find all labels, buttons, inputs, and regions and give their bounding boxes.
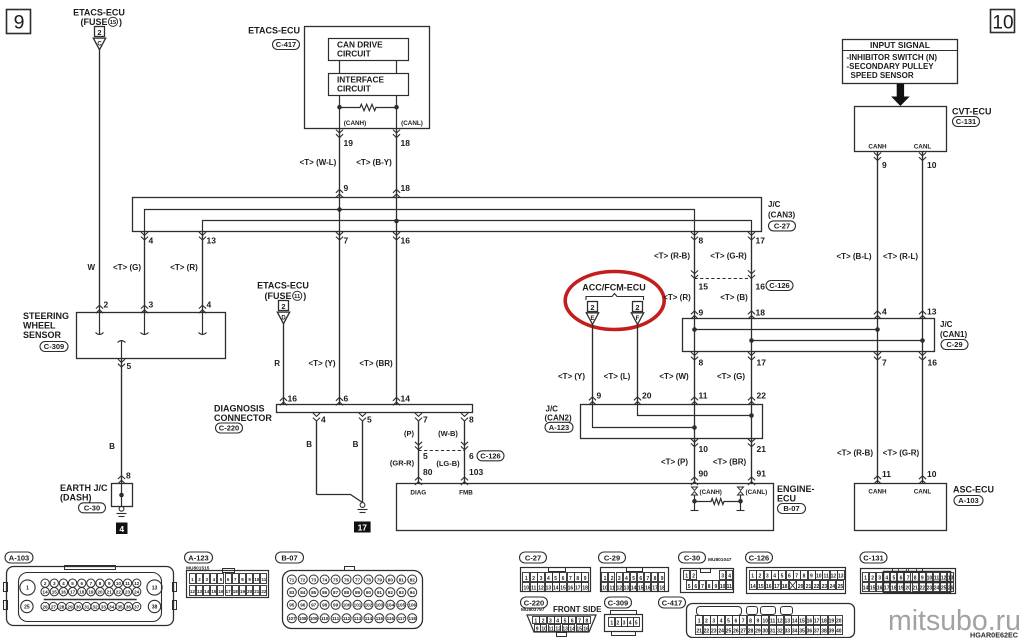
svg-text:77: 77 <box>355 577 361 582</box>
svg-text:29: 29 <box>68 604 74 609</box>
svg-text:10: 10 <box>602 585 608 591</box>
svg-text:7: 7 <box>882 358 887 368</box>
svg-text:18: 18 <box>756 308 766 318</box>
svg-text:22: 22 <box>757 391 767 401</box>
svg-text:7: 7 <box>795 574 798 580</box>
svg-text:16: 16 <box>61 590 67 595</box>
svg-text:18: 18 <box>401 183 411 193</box>
svg-text:5: 5 <box>423 451 428 461</box>
svg-text:30: 30 <box>762 629 768 635</box>
svg-text:5: 5 <box>635 620 638 626</box>
svg-text:<T> (R): <T> (R) <box>170 263 198 272</box>
svg-text:(CANH): (CANH) <box>700 489 722 496</box>
svg-text:10: 10 <box>927 576 933 582</box>
svg-text:C: C <box>97 41 102 47</box>
svg-text:1: 1 <box>864 576 867 582</box>
svg-text:18: 18 <box>659 585 665 591</box>
svg-text:14: 14 <box>569 626 575 632</box>
svg-text:115: 115 <box>376 616 384 621</box>
svg-text:12: 12 <box>134 581 140 586</box>
svg-text:11: 11 <box>934 576 940 582</box>
svg-text:11: 11 <box>548 626 554 632</box>
svg-text:B-07: B-07 <box>281 554 297 563</box>
svg-text:100: 100 <box>343 603 351 608</box>
svg-text:STEERING: STEERING <box>23 311 69 321</box>
svg-text:C-29: C-29 <box>604 554 620 563</box>
svg-text:<T> (P): <T> (P) <box>661 458 688 467</box>
svg-text:1: 1 <box>26 586 29 592</box>
svg-text:23: 23 <box>927 586 933 592</box>
svg-text:24: 24 <box>934 586 940 592</box>
svg-text:8: 8 <box>914 576 917 582</box>
svg-text:5: 5 <box>727 619 730 625</box>
svg-text:F: F <box>636 316 640 322</box>
svg-text:R: R <box>274 359 280 368</box>
svg-text:23: 23 <box>822 584 828 590</box>
svg-text:C-126: C-126 <box>480 451 500 460</box>
svg-text:C-30: C-30 <box>84 503 100 512</box>
svg-text:17: 17 <box>814 619 820 625</box>
svg-text:<T> (Y): <T> (Y) <box>558 372 585 381</box>
svg-text:5: 5 <box>688 584 691 590</box>
svg-text:18: 18 <box>401 138 411 148</box>
svg-text:74: 74 <box>322 577 328 582</box>
svg-text:14: 14 <box>401 394 411 404</box>
svg-text:<T> (BR): <T> (BR) <box>713 458 747 467</box>
svg-text:4: 4 <box>207 300 212 310</box>
svg-text:14: 14 <box>631 585 637 591</box>
svg-text:8: 8 <box>576 576 579 582</box>
svg-text:13: 13 <box>927 307 937 317</box>
svg-text:<T> (R): <T> (R) <box>663 293 691 302</box>
svg-text:11: 11 <box>262 577 267 582</box>
svg-text:FRONT SIDE: FRONT SIDE <box>553 605 602 614</box>
svg-text:15: 15 <box>870 586 876 592</box>
svg-text:C-220: C-220 <box>219 424 239 433</box>
svg-text:1: 1 <box>525 576 528 582</box>
svg-text:9: 9 <box>661 576 664 582</box>
svg-text:C-417: C-417 <box>276 40 296 49</box>
svg-text:6: 6 <box>562 576 565 582</box>
svg-text:20: 20 <box>836 619 842 625</box>
svg-text:13: 13 <box>546 585 552 591</box>
svg-text:19: 19 <box>344 138 354 148</box>
svg-text:9: 9 <box>14 12 25 34</box>
svg-text:5: 5 <box>893 576 896 582</box>
svg-text:17: 17 <box>652 585 658 591</box>
svg-text:11: 11 <box>823 574 829 580</box>
svg-text:103: 103 <box>376 603 384 608</box>
svg-text:ENGINE-: ENGINE- <box>777 484 815 494</box>
svg-text:2: 2 <box>635 303 639 312</box>
svg-text:93: 93 <box>399 590 405 595</box>
svg-text:(GR-R): (GR-R) <box>390 459 415 468</box>
svg-text:C-131: C-131 <box>956 117 976 126</box>
svg-text:21: 21 <box>757 444 767 454</box>
svg-text:101: 101 <box>354 603 362 608</box>
svg-text:15: 15 <box>699 282 709 292</box>
svg-text:10: 10 <box>254 577 260 582</box>
svg-text:15: 15 <box>52 590 58 595</box>
svg-text:12: 12 <box>555 626 561 632</box>
svg-text:9: 9 <box>699 308 704 318</box>
svg-text:83: 83 <box>289 590 295 595</box>
svg-text:15: 15 <box>560 585 566 591</box>
svg-text:13: 13 <box>197 589 203 594</box>
svg-text:16: 16 <box>766 584 772 590</box>
svg-text:20: 20 <box>905 586 911 592</box>
svg-text:6: 6 <box>734 619 737 625</box>
svg-text:21: 21 <box>254 589 260 594</box>
svg-text:30: 30 <box>76 604 82 609</box>
svg-text:MU801047: MU801047 <box>708 557 732 563</box>
svg-text:2: 2 <box>617 620 620 626</box>
svg-text:21: 21 <box>806 584 812 590</box>
svg-text:78: 78 <box>366 577 372 582</box>
svg-text:6: 6 <box>571 619 574 625</box>
svg-text:12: 12 <box>617 585 623 591</box>
svg-text:C-27: C-27 <box>774 222 790 231</box>
svg-text:105: 105 <box>397 603 405 608</box>
svg-text:1: 1 <box>610 620 613 626</box>
svg-text:27: 27 <box>51 604 57 609</box>
svg-text:25: 25 <box>941 586 947 592</box>
svg-text:(CANL): (CANL) <box>401 120 423 127</box>
svg-text:11: 11 <box>610 585 616 591</box>
svg-text:11: 11 <box>882 469 891 479</box>
svg-text:25: 25 <box>726 629 732 635</box>
svg-text:9: 9 <box>536 626 539 632</box>
svg-text:CANH: CANH <box>868 489 887 496</box>
svg-text:34: 34 <box>109 604 115 609</box>
svg-text:91: 91 <box>757 469 767 479</box>
svg-text:19: 19 <box>240 589 246 594</box>
svg-text:18: 18 <box>891 586 897 592</box>
svg-text:17: 17 <box>70 590 76 595</box>
svg-text:17: 17 <box>884 586 890 592</box>
svg-text:10: 10 <box>992 12 1013 33</box>
svg-text:<T> (BR): <T> (BR) <box>359 359 393 368</box>
svg-text:10: 10 <box>927 160 937 170</box>
svg-text:116: 116 <box>387 616 395 621</box>
svg-text:<T> (B): <T> (B) <box>720 293 748 302</box>
svg-text:13: 13 <box>838 574 844 580</box>
svg-text:7: 7 <box>90 581 93 586</box>
svg-text:8: 8 <box>699 358 704 368</box>
svg-text:<T> (R-B): <T> (R-B) <box>654 252 690 261</box>
svg-text:<T> (G): <T> (G) <box>113 263 141 272</box>
svg-text:15: 15 <box>799 619 805 625</box>
svg-text:13: 13 <box>624 585 630 591</box>
svg-text:75: 75 <box>333 577 339 582</box>
svg-text:ECU: ECU <box>777 494 796 504</box>
svg-text:37: 37 <box>814 629 820 635</box>
svg-text:4: 4 <box>547 576 550 582</box>
svg-text:9: 9 <box>584 576 587 582</box>
svg-text:11: 11 <box>699 391 708 401</box>
svg-text:(CAN1): (CAN1) <box>940 330 967 339</box>
svg-text:2: 2 <box>44 581 47 586</box>
svg-text:114: 114 <box>365 616 373 621</box>
svg-text:16: 16 <box>928 358 938 368</box>
svg-text:B: B <box>306 440 312 449</box>
svg-text:(CANL): (CANL) <box>746 489 768 496</box>
svg-text:22: 22 <box>920 586 926 592</box>
svg-text:15: 15 <box>110 20 117 26</box>
svg-text:W: W <box>87 263 95 272</box>
svg-text:1: 1 <box>751 574 754 580</box>
svg-text:7: 7 <box>569 576 572 582</box>
svg-text:B: B <box>353 440 359 449</box>
svg-text:91: 91 <box>377 590 383 595</box>
svg-text:111: 111 <box>332 616 340 621</box>
svg-text:15: 15 <box>758 584 764 590</box>
svg-text:22: 22 <box>261 589 267 594</box>
svg-text:C-29: C-29 <box>946 340 962 349</box>
svg-text:25: 25 <box>24 605 30 611</box>
svg-text:13: 13 <box>207 236 217 246</box>
svg-text:<T> (W): <T> (W) <box>659 372 689 381</box>
svg-text:9: 9 <box>344 183 349 193</box>
svg-text:4: 4 <box>321 415 326 425</box>
svg-text:18: 18 <box>79 590 85 595</box>
svg-text:3: 3 <box>149 300 154 310</box>
svg-text:12: 12 <box>190 589 196 594</box>
svg-text:CIRCUIT: CIRCUIT <box>337 84 371 94</box>
svg-text:7: 7 <box>423 415 428 425</box>
svg-text:<T> (B-Y): <T> (B-Y) <box>356 158 392 167</box>
svg-text:SPEED SENSOR: SPEED SENSOR <box>851 71 914 80</box>
svg-text:4: 4 <box>629 620 632 626</box>
svg-text:6: 6 <box>469 451 474 461</box>
svg-text:88: 88 <box>344 590 350 595</box>
svg-text:18: 18 <box>233 589 239 594</box>
svg-text:FMB: FMB <box>459 490 473 497</box>
svg-text:104: 104 <box>387 603 395 608</box>
svg-text:C-27: C-27 <box>525 554 541 563</box>
svg-text:2: 2 <box>104 300 109 310</box>
svg-text:10: 10 <box>699 444 709 454</box>
svg-text:21: 21 <box>696 629 702 635</box>
svg-text:102: 102 <box>365 603 373 608</box>
svg-text:20: 20 <box>247 589 253 594</box>
svg-text:(LG-B): (LG-B) <box>436 459 460 468</box>
svg-text:-SECONDARY PULLEY: -SECONDARY PULLEY <box>847 62 935 71</box>
svg-text:C-131: C-131 <box>863 554 883 563</box>
svg-text:108: 108 <box>299 616 307 621</box>
svg-text:CVT-ECU: CVT-ECU <box>952 107 992 117</box>
svg-text:24: 24 <box>134 590 140 595</box>
svg-text:B-07: B-07 <box>783 504 799 513</box>
svg-text:12: 12 <box>777 619 783 625</box>
svg-text:3: 3 <box>623 620 626 626</box>
svg-text:10: 10 <box>116 581 122 586</box>
svg-text:2: 2 <box>532 576 535 582</box>
svg-text:72: 72 <box>300 577 306 582</box>
svg-text:18: 18 <box>821 619 827 625</box>
svg-text:10: 10 <box>762 619 768 625</box>
svg-text:92: 92 <box>388 590 394 595</box>
svg-text:(CANH): (CANH) <box>344 120 366 127</box>
svg-text:ETACS-ECU: ETACS-ECU <box>248 26 300 36</box>
svg-text:109: 109 <box>310 616 318 621</box>
svg-text:INPUT SIGNAL: INPUT SIGNAL <box>870 40 930 50</box>
svg-text:118: 118 <box>409 616 417 621</box>
svg-text:80: 80 <box>388 577 394 582</box>
svg-text:16: 16 <box>645 585 651 591</box>
svg-text:26: 26 <box>43 604 49 609</box>
svg-text:5: 5 <box>554 576 557 582</box>
svg-text:5: 5 <box>781 574 784 580</box>
svg-text:4: 4 <box>882 307 887 317</box>
svg-text:97: 97 <box>311 603 317 608</box>
svg-text:24: 24 <box>718 629 724 635</box>
svg-text:32: 32 <box>93 604 99 609</box>
svg-text:17: 17 <box>575 585 581 591</box>
svg-text:EARTH J/C: EARTH J/C <box>60 483 108 493</box>
svg-text:18: 18 <box>782 584 788 590</box>
svg-text:7: 7 <box>647 576 650 582</box>
svg-text:(DASH): (DASH) <box>60 493 92 503</box>
svg-text:CANL: CANL <box>914 144 932 151</box>
svg-text:CANL: CANL <box>914 489 932 496</box>
svg-text:2: 2 <box>281 302 285 311</box>
svg-text:28: 28 <box>748 629 754 635</box>
svg-text:<T> (R-B): <T> (R-B) <box>837 449 873 458</box>
svg-text:<T> (L): <T> (L) <box>604 372 631 381</box>
svg-text:16: 16 <box>568 585 574 591</box>
svg-text:22: 22 <box>814 584 820 590</box>
svg-text:21: 21 <box>912 586 918 592</box>
svg-text:5: 5 <box>367 415 372 425</box>
svg-text:35: 35 <box>118 604 124 609</box>
svg-text:17: 17 <box>226 589 232 594</box>
svg-text:96: 96 <box>300 603 306 608</box>
svg-text:39: 39 <box>829 629 835 635</box>
svg-text:13: 13 <box>562 626 568 632</box>
svg-text:85: 85 <box>311 590 317 595</box>
svg-text:<T> (G-R): <T> (G-R) <box>883 449 920 458</box>
svg-text:16: 16 <box>807 619 813 625</box>
svg-text:1: 1 <box>698 619 701 625</box>
svg-text:17: 17 <box>757 358 767 368</box>
svg-text:98: 98 <box>322 603 328 608</box>
svg-text:38: 38 <box>152 605 158 611</box>
svg-text:17: 17 <box>774 584 780 590</box>
svg-text:20: 20 <box>642 391 652 401</box>
svg-text:76: 76 <box>344 577 350 582</box>
svg-text:4: 4 <box>625 576 628 582</box>
svg-text:10: 10 <box>720 584 726 590</box>
svg-text:): ) <box>303 291 306 301</box>
svg-text:22: 22 <box>704 629 710 635</box>
svg-text:14: 14 <box>750 584 756 590</box>
svg-text:7: 7 <box>344 236 349 246</box>
svg-text:): ) <box>119 17 122 27</box>
svg-text:17: 17 <box>756 236 766 246</box>
svg-text:37: 37 <box>134 604 140 609</box>
svg-text:36: 36 <box>126 604 132 609</box>
svg-text:<T> (Y): <T> (Y) <box>308 359 335 368</box>
svg-text:3: 3 <box>549 619 552 625</box>
svg-text:MU803797: MU803797 <box>521 607 545 613</box>
svg-text:8: 8 <box>99 581 102 586</box>
svg-text:15: 15 <box>211 589 217 594</box>
svg-text:99: 99 <box>333 603 339 608</box>
svg-text:<T> (G): <T> (G) <box>717 372 745 381</box>
svg-text:16: 16 <box>756 282 766 292</box>
svg-text:DIAG: DIAG <box>410 490 426 497</box>
svg-text:32: 32 <box>777 629 783 635</box>
svg-text:2: 2 <box>759 574 762 580</box>
svg-text:19: 19 <box>88 590 94 595</box>
svg-text:(P): (P) <box>404 429 415 438</box>
svg-text:<T> (R-L): <T> (R-L) <box>883 252 918 261</box>
svg-text:11: 11 <box>294 294 301 300</box>
svg-text:1: 1 <box>534 619 537 625</box>
svg-text:<T> (B-L): <T> (B-L) <box>836 252 871 261</box>
svg-text:13: 13 <box>152 586 158 592</box>
svg-text:40: 40 <box>836 629 842 635</box>
svg-text:71: 71 <box>289 577 295 582</box>
svg-text:13: 13 <box>785 619 791 625</box>
svg-text:-INHIBITOR SWITCH (N): -INHIBITOR SWITCH (N) <box>847 53 938 62</box>
svg-text:18: 18 <box>582 585 588 591</box>
svg-text:90: 90 <box>366 590 372 595</box>
svg-text:3: 3 <box>53 581 56 586</box>
svg-text:33: 33 <box>101 604 107 609</box>
svg-text:80: 80 <box>423 467 433 477</box>
svg-text:14: 14 <box>792 619 798 625</box>
svg-text:4: 4 <box>773 574 776 580</box>
svg-text:5: 5 <box>564 619 567 625</box>
svg-text:12: 12 <box>538 585 544 591</box>
svg-text:3: 3 <box>878 576 881 582</box>
svg-text:89: 89 <box>355 590 361 595</box>
svg-text:8: 8 <box>803 574 806 580</box>
svg-text:C-126: C-126 <box>749 554 769 563</box>
svg-text:C-30: C-30 <box>684 554 700 563</box>
svg-text:38: 38 <box>821 629 827 635</box>
svg-text:9: 9 <box>108 581 111 586</box>
svg-text:21: 21 <box>107 590 113 595</box>
svg-text:29: 29 <box>755 629 761 635</box>
svg-text:SENSOR: SENSOR <box>23 330 62 340</box>
svg-text:20: 20 <box>97 590 103 595</box>
svg-text:16: 16 <box>288 394 298 404</box>
svg-text:7: 7 <box>907 576 910 582</box>
svg-text:12: 12 <box>831 574 837 580</box>
svg-text:31: 31 <box>770 629 776 635</box>
svg-text:14: 14 <box>204 589 210 594</box>
svg-text:14: 14 <box>553 585 559 591</box>
svg-text:113: 113 <box>354 616 362 621</box>
svg-text:14: 14 <box>863 586 869 592</box>
svg-text:82: 82 <box>410 577 416 582</box>
svg-text:4: 4 <box>885 576 888 582</box>
svg-text:ACC/FCM-ECU: ACC/FCM-ECU <box>582 283 646 293</box>
svg-text:9: 9 <box>597 391 602 401</box>
svg-text:2: 2 <box>692 573 695 579</box>
svg-text:8: 8 <box>654 576 657 582</box>
svg-text:112: 112 <box>343 616 351 621</box>
svg-text:ETACS-ECU: ETACS-ECU <box>73 8 125 18</box>
svg-text:A-123: A-123 <box>188 554 208 563</box>
svg-text:6: 6 <box>900 576 903 582</box>
svg-text:107: 107 <box>288 616 296 621</box>
svg-text:C-417: C-417 <box>662 599 682 608</box>
svg-text:2: 2 <box>97 28 101 37</box>
